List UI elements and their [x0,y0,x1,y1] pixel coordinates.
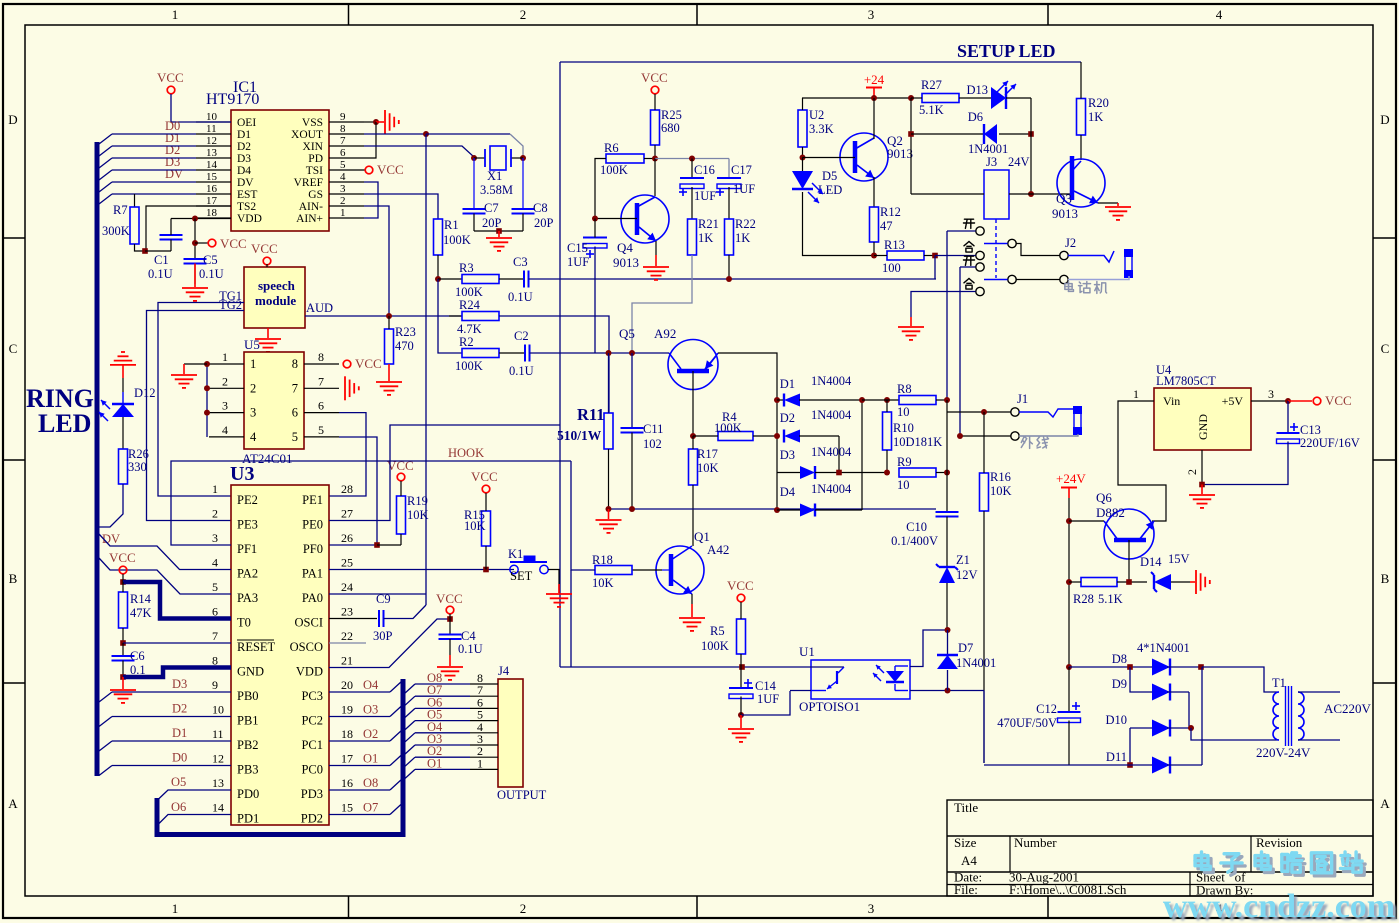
wire U3 PD1 to output bus [158,815,232,826]
wire XIN pin7 to crystal left [364,146,474,158]
wire VREF pin4 to AIN+ pin1 [364,182,378,218]
wire OSCI row to C9 [329,618,377,620]
svg-text:R28: R28 [1073,592,1094,606]
diode D4 1N4004 [777,509,800,511]
svg-text:100K: 100K [455,285,483,299]
svg-text:300K: 300K [102,224,130,238]
junction crystal ground [496,228,502,234]
svg-text:Vin: Vin [1163,394,1180,408]
svg-text:0.1U: 0.1U [458,642,483,656]
ground after K1 [546,593,572,595]
wire Q3 emitter to ground [1098,202,1118,204]
junction D1 left [774,397,780,403]
junction R10 top [884,397,890,403]
resistor R9 [899,468,936,477]
svg-text:470: 470 [395,339,414,353]
svg-text:7: 7 [212,629,218,643]
svg-text:0.1/400V: 0.1/400V [891,534,938,548]
svg-text:100K: 100K [455,359,483,373]
wire Q5 emitter down [692,371,694,436]
svg-text:5: 5 [340,159,346,171]
svg-text:9: 9 [340,111,346,123]
svg-text:5: 5 [318,423,324,437]
diode D8 [1069,666,1152,668]
wire Q1 base to R18 [632,569,662,571]
wire U5 pin1 to ground [184,363,207,365]
wire J2 tip blue [1068,251,1114,262]
svg-text:VSS: VSS [302,117,323,129]
wire column to C10 [946,400,948,512]
svg-text:AC220V: AC220V [1324,701,1372,716]
svg-text:D882: D882 [1096,505,1125,520]
svg-text:16: 16 [341,776,353,790]
svg-text:VCC: VCC [157,70,184,85]
svg-text:O8: O8 [363,776,378,790]
svg-text:10: 10 [897,405,910,419]
svg-text:10D181K: 10D181K [893,435,942,449]
junction waixian [957,433,963,439]
bus wire GND pin8 [123,668,231,678]
diode D2 1N4004 [784,430,800,443]
transistor Q5 A92 pnp [668,340,718,390]
resistor R27 [922,94,959,103]
bus wire VCC to T0 [123,582,231,619]
svg-text:D8: D8 [1112,652,1127,666]
wire C7 C8 common [474,230,523,232]
wire VSS to ground [376,121,384,123]
wire TG2 to U3 PE3 [147,311,245,521]
wires U3 PC3-PD2 to output bus [329,691,390,693]
svg-text:12V: 12V [956,568,978,582]
power VCC near C5 [208,239,216,247]
svg-text:4: 4 [1216,7,1223,22]
svg-text:O1: O1 [363,752,378,766]
svg-text:PD2: PD2 [301,812,323,826]
svg-text:1: 1 [250,357,256,371]
resistor R13 [887,251,924,260]
svg-text:C3: C3 [513,255,528,269]
power VCC at U5 pin8 [343,360,351,368]
wire rail to D6 row [910,98,912,194]
svg-text:J1: J1 [1017,392,1028,406]
svg-text:D3: D3 [172,677,187,691]
svg-text:A: A [1380,796,1390,811]
svg-text:2: 2 [250,381,256,395]
wire D13 D6 column down [1030,98,1032,194]
svg-text:D4: D4 [237,165,251,177]
svg-text:20P: 20P [534,216,554,230]
capacitor C14 polarized [740,667,742,688]
wire to C17 [728,159,730,179]
zener D14 15V [1153,575,1155,589]
svg-text:1UF: 1UF [733,182,755,196]
junction Q6 base [1066,518,1072,524]
svg-text:HOOK: HOOK [448,446,484,460]
svg-text:15: 15 [341,801,353,815]
svg-text:AIN-: AIN- [299,201,323,213]
connector J4 box [498,679,523,787]
wire VDD pin21 diagonal to VCC [329,619,450,668]
svg-text:1K: 1K [1088,110,1103,124]
resistor R17 [689,449,698,485]
LED arrows D5 [812,183,823,194]
svg-text:Size: Size [954,835,977,850]
diode D3 1N4004 [777,472,800,474]
svg-text:K1: K1 [508,547,523,561]
wire VCC to OEI pin 10 [171,94,231,122]
svg-text:10: 10 [897,478,910,492]
svg-text:R21: R21 [698,217,719,231]
ground sideways at VSS [384,110,386,134]
junction R25 R6 [652,156,658,162]
ground at row509 [596,519,622,521]
phone jack J1 body [1074,407,1081,434]
wire close2 to ground [911,292,976,318]
svg-text:D12: D12 [134,386,156,400]
svg-text:R9: R9 [897,455,912,469]
svg-text:PA0: PA0 [302,591,323,605]
svg-text:D4: D4 [780,485,796,499]
svg-text:1: 1 [477,756,483,770]
svg-text:R1: R1 [444,218,459,232]
wires U3 PB0-PB3 to bus [112,691,231,693]
junction R8 switch column [944,397,950,403]
border top ticks [348,4,350,25]
resistor R7 [130,207,139,244]
svg-text:A42: A42 [707,542,729,557]
power VCC at R14 [119,566,127,574]
svg-text:6: 6 [340,147,346,159]
U1 phototransistor [804,666,844,668]
svg-text:+24: +24 [864,72,885,87]
resistor R1 [434,219,443,255]
IC U3 box [231,485,329,825]
svg-text:1UF: 1UF [694,189,716,203]
LED arrows D12 [101,400,110,409]
wire D4 right up to D1 [861,400,863,510]
svg-text:EST: EST [237,189,257,201]
resistor R19 [397,496,406,534]
wire C15 bottom to Q5 base row [594,247,596,354]
svg-text:C7: C7 [484,201,499,215]
capacitor C3 [523,271,525,288]
svg-text:47K: 47K [130,606,152,620]
ground under crystal caps [486,237,512,239]
wire bus to U3 PA2 [99,534,231,570]
IC IC1 HT9170 box [231,110,329,231]
ground at Q3 [1105,206,1131,208]
svg-text:R22: R22 [735,217,756,231]
svg-text:RESET: RESET [237,640,276,654]
svg-text:R5: R5 [710,624,725,638]
wire D14 to side ground [1190,581,1195,583]
junction D10 right [1188,725,1194,731]
svg-text:U3: U3 [230,463,254,485]
svg-text:19: 19 [341,703,353,717]
wire J1 tip blue [1019,409,1074,417]
svg-text:PD: PD [308,153,323,165]
junction R13 right [932,253,938,259]
resistor R3 [462,275,499,284]
label dianhuaji [1065,284,1072,290]
resistor R12 [870,207,879,242]
IC speech module box [244,267,305,328]
optocoupler U1 box [811,660,910,699]
svg-text:F:\Home\..\C0081.Sch: F:\Home\..\C0081.Sch [1009,882,1127,897]
wire T1 secondary bottom [1298,739,1340,741]
svg-text:A92: A92 [654,326,676,341]
switch contact close1 [964,241,969,245]
wire SETUP net to R20 [1080,62,1082,99]
wire D9 right down [1188,692,1190,728]
svg-text:PC0: PC0 [301,763,323,777]
svg-text:220V-24V: 220V-24V [1256,745,1311,760]
resistor R4 [718,432,753,441]
wire D9-D10 node to T1 [1191,728,1279,740]
junction D6 left [908,131,914,137]
svg-text:1: 1 [172,901,179,916]
svg-text:1N4004: 1N4004 [811,482,852,496]
svg-text:www.cndzz.com: www.cndzz.com [1163,888,1395,923]
svg-text:+5V: +5V [1222,394,1244,408]
svg-text:D3: D3 [780,448,795,462]
wire R3 to C3 [499,278,524,280]
svg-text:Q4: Q4 [617,240,633,255]
svg-text:J2: J2 [1065,236,1076,250]
svg-text:HT9170: HT9170 [206,91,259,108]
svg-text:O6: O6 [171,800,186,814]
wires output bus to J4 pins [404,684,415,694]
wire VDD junction down [194,219,196,260]
svg-text:15: 15 [206,171,218,183]
svg-text:C: C [1381,341,1390,356]
junction R9 switch column [944,470,950,476]
svg-text:11: 11 [206,123,217,135]
svg-text:R3: R3 [459,261,474,275]
svg-text:D2: D2 [780,411,795,425]
svg-text:1UF: 1UF [567,255,589,269]
svg-text:C13: C13 [1300,423,1321,437]
junction RESET [120,640,126,646]
label waixian [1021,437,1024,443]
svg-text:C12: C12 [1036,702,1057,716]
svg-text:7: 7 [340,135,346,147]
ground under C5 [182,287,208,289]
svg-text:TSI: TSI [306,165,323,177]
svg-text:C4: C4 [461,629,476,643]
wire PA0 row [329,593,426,595]
junction D8 right [1198,664,1204,670]
svg-text:PF1: PF1 [237,542,257,556]
svg-text:1N4001: 1N4001 [956,656,996,670]
svg-text:Q5: Q5 [619,326,635,341]
svg-text:6: 6 [292,406,298,420]
wire +24V down [1068,498,1070,667]
wire J1 tip row [947,411,1011,413]
wire C3 right long row [529,278,937,280]
resistor R14 [119,592,128,628]
switch K1 SET [510,565,518,573]
wire R12 bottom [873,242,875,256]
svg-text:Revision: Revision [1256,835,1303,850]
diode D5 LED [792,171,813,189]
svg-text:VCC: VCC [377,162,404,177]
svg-text:VCC: VCC [251,241,278,256]
svg-text:R26: R26 [128,447,149,461]
svg-text:R12: R12 [880,205,901,219]
svg-text:R25: R25 [661,108,682,122]
wire U5 pin6 to U3 PE1 [329,413,366,496]
junction R1 R3 [435,276,441,282]
wire AUD row to R24 [449,315,462,317]
resistor R16 [980,473,989,511]
svg-text:C16: C16 [694,163,715,177]
junction relay coil node [1028,191,1034,197]
svg-text:5.1K: 5.1K [1098,592,1123,606]
svg-text:R16: R16 [990,470,1011,484]
junction R16 top [981,409,987,415]
svg-text:T1: T1 [1272,676,1286,690]
svg-text:PC1: PC1 [301,738,323,752]
svg-text:File:: File: [954,882,978,897]
wire U3 PF1 to HOOK net [171,461,571,545]
capacitor C9 [378,610,380,627]
border right ticks [1373,237,1396,239]
svg-text:3: 3 [222,399,228,413]
svg-text:2: 2 [520,7,527,22]
svg-text:speech: speech [258,278,296,293]
crystal X1 [471,155,477,161]
power VCC at speech module [263,257,271,265]
IC U4 LM7805CT box [1154,388,1251,450]
capacitor C6 [122,643,124,656]
wire R26 to bus [99,484,123,527]
wire EST to R7 [134,194,136,207]
wire junction to VCC [195,242,208,244]
svg-text:4.7K: 4.7K [457,322,482,336]
resistor R22 [725,219,734,255]
svg-text:D14: D14 [1140,555,1162,569]
svg-text:2: 2 [212,507,218,521]
wire R2 to C2 [499,352,525,354]
wire U3 PD0 to output bus [158,790,232,800]
ground sideways at U5 pin7 [344,376,346,400]
svg-text:R24: R24 [459,298,481,312]
svg-text:20: 20 [341,678,353,692]
border bottom ticks [348,896,350,918]
wire R21 bottom grey zigzag to Q5 base [632,255,692,353]
svg-text:OSCO: OSCO [290,640,323,654]
svg-text:VCC: VCC [387,458,414,473]
svg-text:C8: C8 [533,201,548,215]
svg-text:100K: 100K [443,233,471,247]
svg-text:OEI: OEI [237,117,256,129]
svg-text:3: 3 [868,901,875,916]
svg-text:5: 5 [212,580,218,594]
ground below switch [898,326,924,328]
svg-text:PD0: PD0 [237,787,259,801]
wire EST entry row [112,193,196,195]
junction bridge +24 [1066,664,1072,670]
svg-text:PA1: PA1 [302,567,323,581]
svg-text:D0: D0 [172,751,187,765]
svg-text:XOUT: XOUT [291,129,323,141]
svg-text:9013: 9013 [613,255,639,270]
svg-text:+24V: +24V [1056,471,1086,486]
svg-text:C14: C14 [755,679,777,693]
svg-text:26: 26 [341,531,353,545]
junction VCC T0 bus [120,579,126,585]
wire R8 right [936,399,947,401]
svg-text:PD3: PD3 [301,787,323,801]
wire OSCO stub [329,642,366,644]
wire TSI pin5 to VCC [364,169,365,171]
wire bridge bottom row [984,764,1130,766]
svg-text:C17: C17 [731,163,752,177]
svg-text:3: 3 [1268,387,1274,401]
resistor R21 [688,219,697,255]
wire C16 to R21 [691,187,693,219]
svg-text:3.58M: 3.58M [480,183,513,197]
power VCC at TSI [365,166,373,174]
svg-text:A4: A4 [961,853,977,868]
svg-text:12: 12 [206,135,217,147]
wire C4 to ground [449,655,451,666]
bus entries IC1 side [99,134,112,144]
svg-text:30P: 30P [373,629,393,643]
wire R1 bottom [437,255,439,279]
svg-text:O4: O4 [363,678,379,692]
wire U4 gnd stem [1201,485,1203,495]
svg-text:VCC: VCC [355,356,382,371]
svg-text:D1: D1 [172,726,187,740]
svg-text:1N4004: 1N4004 [811,374,852,388]
svg-text:LM7805CT: LM7805CT [1156,374,1216,388]
svg-text:PF0: PF0 [303,542,323,556]
junction R12 R13 [871,253,877,259]
capacitor C17 polarized [717,177,741,179]
wire GS pin3 to R1 [364,194,438,219]
svg-text:Title: Title [954,800,978,815]
svg-text:D11: D11 [1106,750,1127,764]
capacitor C8 [522,158,524,209]
wire open2 down to waixian [959,267,961,436]
wire J3 row [911,193,984,195]
contact J2 lower [1060,275,1068,283]
svg-text:X1: X1 [487,169,502,183]
svg-text:O2: O2 [363,727,378,741]
wire Q2 collector to rail [873,98,875,139]
svg-text:4: 4 [222,423,228,437]
svg-text:2: 2 [520,901,527,916]
wire opto cathode down right [983,691,985,764]
phone jack J2 body [1125,250,1132,277]
resistor U2 3.3K [798,110,807,147]
junction Q2 base node [800,155,806,161]
svg-text:PE0: PE0 [302,518,323,532]
svg-text:PB3: PB3 [237,763,259,777]
junction XOUT [423,131,429,137]
junction VDD pin18 [192,216,198,222]
wire D8-D11 node to T1 [1202,667,1279,692]
junction C13 top [1285,398,1291,404]
wire Q4 collector [654,159,656,197]
capacitor C1 [160,234,183,236]
svg-text:24V: 24V [1008,155,1030,169]
switch pole1 [1008,239,1016,247]
svg-text:D2: D2 [172,702,187,716]
ground under C4 [437,666,463,668]
